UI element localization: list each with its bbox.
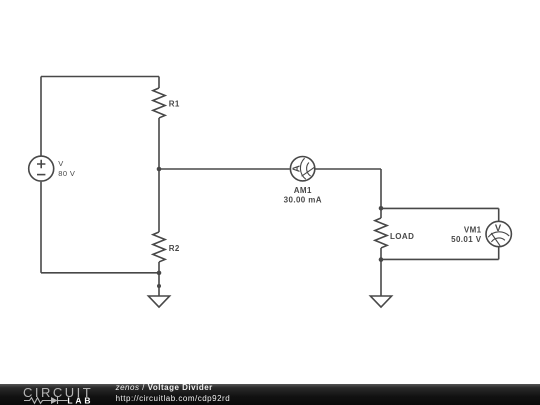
ground symbol right bbox=[370, 296, 391, 307]
svg-text:A: A bbox=[292, 165, 303, 172]
footer bar bbox=[0, 384, 540, 405]
node junction dot bottom left bbox=[157, 271, 162, 276]
wire voltmeter top horizontal bbox=[381, 207, 499, 209]
CircuitLab logo bbox=[0, 384, 110, 405]
svg-text:LAB: LAB bbox=[67, 395, 93, 405]
wire R1 bottom lead bbox=[158, 118, 160, 169]
wire load bottom lead bbox=[380, 248, 382, 259]
svg-text:AM1: AM1 bbox=[294, 186, 312, 195]
svg-text:R1: R1 bbox=[169, 100, 180, 109]
wire voltmeter bottom vertical bbox=[498, 247, 500, 259]
wire R2 bottom lead bbox=[158, 262, 160, 273]
voltage source plus sign bbox=[37, 160, 45, 168]
voltmeter VM1 meter glyph bbox=[488, 232, 509, 246]
voltmeter VM1 circle bbox=[486, 221, 511, 246]
svg-text:V: V bbox=[58, 159, 63, 168]
voltage source V circle bbox=[29, 156, 54, 181]
wire left vertical upper (source top lead) bbox=[40, 77, 42, 156]
resistor R2 body bbox=[153, 232, 165, 262]
node ground dot left bbox=[157, 284, 161, 288]
svg-text:R2: R2 bbox=[169, 244, 180, 253]
footer title line bbox=[116, 382, 213, 393]
wire top horizontal bbox=[41, 76, 159, 78]
svg-text:30.00 mA: 30.00 mA bbox=[284, 196, 322, 205]
wire right ground lead bbox=[380, 259, 382, 296]
node junction dot load top bbox=[379, 206, 384, 211]
resistor LOAD body bbox=[375, 218, 387, 248]
wire ammeter to corner bbox=[315, 168, 381, 170]
footer url line bbox=[116, 393, 231, 404]
node junction dot load bottom bbox=[379, 257, 384, 262]
wire load top lead bbox=[380, 208, 382, 218]
wire left vertical lower (source bottom lead) bbox=[40, 182, 42, 273]
ammeter AM1 circle bbox=[290, 157, 314, 181]
voltage source minus sign bbox=[37, 174, 45, 176]
svg-text:80 V: 80 V bbox=[58, 169, 75, 178]
ground symbol left bbox=[148, 296, 169, 307]
svg-text:LOAD: LOAD bbox=[390, 232, 414, 241]
svg-text:V: V bbox=[495, 223, 502, 234]
wire voltmeter bottom horizontal bbox=[381, 258, 499, 260]
wire mid horizontal to ammeter bbox=[159, 168, 290, 170]
wire left ground lead bbox=[158, 273, 160, 296]
node junction dot R1/R2/wire bbox=[157, 167, 162, 172]
svg-text:VM1: VM1 bbox=[464, 226, 482, 235]
wire R1 top lead bbox=[158, 77, 160, 89]
ammeter AM1 meter glyph (rotated) bbox=[300, 158, 314, 179]
wire R2 top lead bbox=[158, 169, 160, 232]
wire voltmeter top vertical bbox=[498, 208, 500, 221]
resistor R1 body bbox=[153, 88, 165, 118]
wire bottom horizontal bbox=[41, 272, 159, 274]
wire right vertical down to load node bbox=[380, 169, 382, 208]
svg-text:50.01 V: 50.01 V bbox=[451, 235, 482, 244]
